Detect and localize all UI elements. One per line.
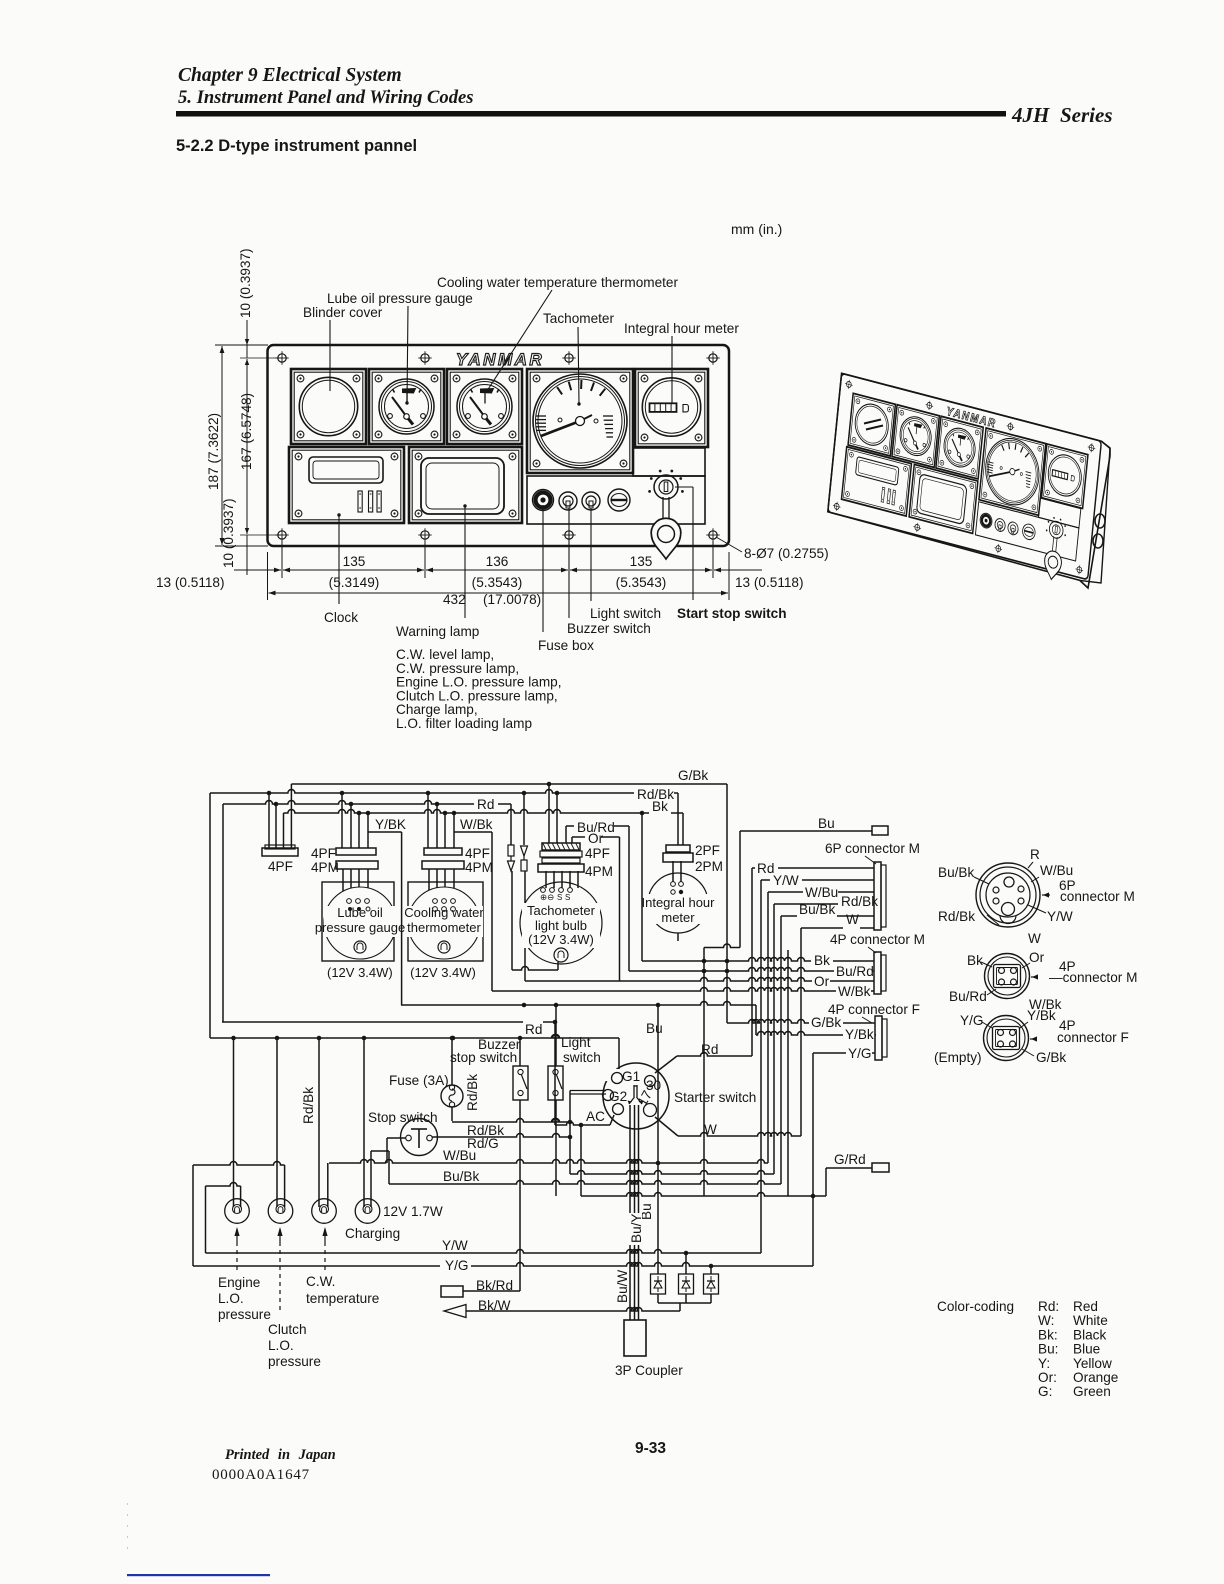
svg-text:Tachometer: Tachometer xyxy=(527,903,596,918)
svg-text:Lube oil: Lube oil xyxy=(337,905,383,920)
svg-text:Fuse (3A): Fuse (3A) xyxy=(389,1073,449,1088)
svg-text:Y:: Y: xyxy=(1038,1356,1050,1371)
svg-text:temperature: temperature xyxy=(306,1291,379,1306)
svg-text:G/Bk: G/Bk xyxy=(678,768,708,783)
svg-text:2PM: 2PM xyxy=(695,859,723,874)
svg-text:—connector M: —connector M xyxy=(1049,970,1137,985)
svg-text:Warning lamp: Warning lamp xyxy=(396,624,479,639)
svg-text:Y/G: Y/G xyxy=(445,1258,468,1273)
svg-text:Rd/Bk: Rd/Bk xyxy=(301,1087,316,1124)
svg-text:Bu/W: Bu/W xyxy=(615,1270,630,1303)
svg-text:G:: G: xyxy=(1038,1384,1052,1399)
svg-text:Orange: Orange xyxy=(1073,1370,1118,1385)
svg-text:R: R xyxy=(1030,847,1040,862)
svg-text:Rd: Rd xyxy=(525,1022,542,1037)
svg-text:(5.3543): (5.3543) xyxy=(616,575,667,590)
svg-text:Bu/Rd: Bu/Rd xyxy=(836,964,874,979)
svg-text:Charging: Charging xyxy=(345,1226,400,1241)
svg-text:Rd/Bk: Rd/Bk xyxy=(841,894,878,909)
svg-text:4PM: 4PM xyxy=(585,864,613,879)
svg-text:(12V 3.4W): (12V 3.4W) xyxy=(327,965,393,980)
svg-text:4P connector M: 4P connector M xyxy=(830,932,925,947)
svg-text:pressure: pressure xyxy=(218,1307,271,1322)
svg-text:Bk: Bk xyxy=(814,953,830,968)
svg-text:Or: Or xyxy=(1029,950,1045,965)
svg-text:W/Bu: W/Bu xyxy=(1040,863,1073,878)
svg-text:S: S xyxy=(565,893,570,902)
svg-text:(17.0078): (17.0078) xyxy=(483,592,541,607)
svg-text:Bu/Bk: Bu/Bk xyxy=(799,902,835,917)
svg-text:Rd: Rd xyxy=(701,1042,718,1057)
svg-text:Y/Bk: Y/Bk xyxy=(845,1027,874,1042)
svg-text:Y/W: Y/W xyxy=(773,873,799,888)
svg-text:G/Rd: G/Rd xyxy=(834,1152,866,1167)
svg-text:4PF: 4PF xyxy=(465,846,490,861)
svg-text:4PM: 4PM xyxy=(465,860,493,875)
svg-text:W/Bu: W/Bu xyxy=(805,885,838,900)
svg-text:(Empty): (Empty) xyxy=(934,1050,982,1065)
svg-text:Light switch: Light switch xyxy=(590,606,661,621)
svg-text:Clutch: Clutch xyxy=(268,1322,307,1337)
svg-text:Bk/W: Bk/W xyxy=(478,1298,511,1313)
svg-text:C.W.: C.W. xyxy=(306,1274,335,1289)
svg-text:13 (0.5118): 13 (0.5118) xyxy=(156,575,225,590)
svg-text:Bk: Bk xyxy=(967,953,983,968)
svg-text:C.W. pressure lamp,: C.W. pressure lamp, xyxy=(396,661,519,676)
svg-text:6P connector M: 6P connector M xyxy=(825,841,920,856)
svg-text:Yellow: Yellow xyxy=(1073,1356,1112,1371)
svg-text:mm (in.): mm (in.) xyxy=(731,221,782,237)
svg-text:(5.3149): (5.3149) xyxy=(329,575,380,590)
svg-text:(12V 3.4W): (12V 3.4W) xyxy=(528,932,594,947)
svg-text:L.O.: L.O. xyxy=(218,1291,244,1306)
svg-text:switch: switch xyxy=(563,1050,601,1065)
svg-text:5. Instrument Panel and Wiring: 5. Instrument Panel and Wiring Codes xyxy=(178,87,474,108)
svg-text:White: White xyxy=(1073,1313,1108,1328)
svg-text:136: 136 xyxy=(486,554,509,569)
svg-text:Y/W: Y/W xyxy=(442,1238,468,1253)
svg-text:G2: G2 xyxy=(609,1089,627,1104)
svg-text:Blue: Blue xyxy=(1073,1342,1100,1357)
svg-text:Starter switch: Starter switch xyxy=(674,1090,756,1105)
svg-text:Rd/Bk: Rd/Bk xyxy=(938,909,975,924)
svg-text:G/Bk: G/Bk xyxy=(811,1015,841,1030)
svg-text:Bu/Y: Bu/Y xyxy=(629,1214,644,1243)
svg-text:connector M: connector M xyxy=(1060,889,1135,904)
svg-text:4PF: 4PF xyxy=(311,846,336,861)
svg-text:Chapter 9 Electrical System: Chapter 9 Electrical System xyxy=(178,65,402,86)
svg-text:stop switch: stop switch xyxy=(450,1050,517,1065)
svg-text:4P connector F: 4P connector F xyxy=(828,1002,920,1017)
svg-text:Y/G: Y/G xyxy=(848,1046,871,1061)
svg-text:Lube oil pressure gauge: Lube oil pressure gauge xyxy=(327,291,473,306)
svg-text:8-Ø7 (0.2755): 8-Ø7 (0.2755) xyxy=(744,546,829,561)
svg-text:meter: meter xyxy=(661,910,695,925)
svg-text:W/Bk: W/Bk xyxy=(838,984,871,999)
svg-text:Cooling water: Cooling water xyxy=(404,905,484,920)
svg-text:Stop switch: Stop switch xyxy=(368,1110,438,1125)
svg-text:12V 1.7W: 12V 1.7W xyxy=(383,1204,443,1219)
svg-text:Or: Or xyxy=(588,831,604,846)
svg-text:Bu/Rd: Bu/Rd xyxy=(949,989,987,1004)
svg-text:pressure gauge: pressure gauge xyxy=(315,920,405,935)
svg-text:Red: Red xyxy=(1073,1299,1098,1314)
svg-text:Integral hour: Integral hour xyxy=(642,895,716,910)
svg-text:W:: W: xyxy=(1038,1313,1054,1328)
svg-text:135: 135 xyxy=(343,554,366,569)
svg-text:Y/W: Y/W xyxy=(1047,909,1073,924)
svg-text:Color-coding: Color-coding xyxy=(937,1299,1014,1314)
svg-text:Black: Black xyxy=(1073,1327,1106,1342)
svg-text:Engine L.O. pressure lamp,: Engine L.O. pressure lamp, xyxy=(396,675,561,690)
svg-text:2PF: 2PF xyxy=(695,843,720,858)
svg-text:3P Coupler: 3P Coupler xyxy=(615,1363,683,1378)
svg-text:432: 432 xyxy=(443,592,466,607)
svg-text:Bu/Bk: Bu/Bk xyxy=(443,1169,479,1184)
svg-text:Bu: Bu xyxy=(646,1021,663,1036)
svg-text:4JH: 4JH xyxy=(1011,103,1050,127)
svg-text:Clutch L.O. pressure lamp,: Clutch L.O. pressure lamp, xyxy=(396,688,558,703)
svg-text:G1: G1 xyxy=(622,1069,640,1084)
svg-text:Fuse box: Fuse box xyxy=(538,638,594,653)
svg-text:Printed in Japan: Printed in Japan xyxy=(225,1447,336,1463)
svg-text:10 (0.3937): 10 (0.3937) xyxy=(238,248,253,318)
svg-text:Or: Or xyxy=(814,974,830,989)
svg-text:167 (6.5748): 167 (6.5748) xyxy=(239,393,254,470)
svg-text:connector F: connector F xyxy=(1057,1030,1129,1045)
svg-text:9-33: 9-33 xyxy=(635,1440,666,1457)
svg-text:Bk: Bk xyxy=(652,799,668,814)
svg-text:(5.3543): (5.3543) xyxy=(472,575,523,590)
svg-text:Y/G: Y/G xyxy=(960,1013,983,1028)
svg-text:Green: Green xyxy=(1073,1384,1111,1399)
svg-text:Series: Series xyxy=(1060,103,1113,127)
svg-text:L.O.: L.O. xyxy=(268,1338,294,1353)
svg-text:AC: AC xyxy=(586,1109,605,1124)
svg-text:Rd: Rd xyxy=(477,797,494,812)
svg-text:Bk:: Bk: xyxy=(1038,1327,1058,1342)
svg-text:Integral hour meter: Integral hour meter xyxy=(624,321,739,336)
svg-text:10 (0.3937): 10 (0.3937) xyxy=(221,498,236,568)
svg-text:thermometer: thermometer xyxy=(407,920,481,935)
svg-text:4PM: 4PM xyxy=(311,860,339,875)
svg-text:W: W xyxy=(704,1122,717,1137)
svg-text:4PF: 4PF xyxy=(268,859,293,874)
svg-text:light bulb: light bulb xyxy=(535,918,587,933)
svg-text:Bu:: Bu: xyxy=(1038,1342,1058,1357)
svg-text:135: 135 xyxy=(630,554,653,569)
svg-text:W: W xyxy=(1028,931,1041,946)
svg-text:C.W. level lamp,: C.W. level lamp, xyxy=(396,647,494,662)
svg-text:Or:: Or: xyxy=(1038,1370,1057,1385)
svg-text:S: S xyxy=(557,893,562,902)
svg-text:4PF: 4PF xyxy=(585,846,610,861)
svg-text:(12V 3.4W): (12V 3.4W) xyxy=(410,965,476,980)
svg-text:Y/Bk: Y/Bk xyxy=(1027,1008,1056,1023)
svg-text:Charge lamp,: Charge lamp, xyxy=(396,702,478,717)
svg-text:Rd:: Rd: xyxy=(1038,1299,1059,1314)
svg-text:Rd: Rd xyxy=(757,861,774,876)
svg-text:L.O. filter loading lamp: L.O. filter loading lamp xyxy=(396,716,532,731)
svg-text:⊕⊖: ⊕⊖ xyxy=(540,892,554,902)
svg-text:YANMAR: YANMAR xyxy=(456,350,544,369)
svg-text:Y/BK: Y/BK xyxy=(375,817,406,832)
svg-text:13 (0.5118): 13 (0.5118) xyxy=(735,575,804,590)
svg-text:G/Bk: G/Bk xyxy=(1036,1050,1066,1065)
svg-text:W: W xyxy=(846,912,859,927)
svg-text:Bu: Bu xyxy=(818,816,835,831)
svg-text:187 (7.3622): 187 (7.3622) xyxy=(206,413,221,490)
svg-text:Tachometer: Tachometer xyxy=(543,311,614,326)
svg-text:5-2.2 D-type instrument pannel: 5-2.2 D-type instrument pannel xyxy=(176,137,417,155)
svg-text:W/Bk: W/Bk xyxy=(460,817,493,832)
svg-text:Blinder cover: Blinder cover xyxy=(303,305,383,320)
svg-text:Rd/Bk: Rd/Bk xyxy=(465,1074,480,1111)
svg-text:Clock: Clock xyxy=(324,610,358,625)
svg-text:Start stop switch: Start stop switch xyxy=(677,606,787,621)
svg-text:Bk/Rd: Bk/Rd xyxy=(476,1278,513,1293)
svg-text:Buzzer switch: Buzzer switch xyxy=(567,621,651,636)
svg-text:pressure: pressure xyxy=(268,1354,321,1369)
svg-text:Engine: Engine xyxy=(218,1275,260,1290)
svg-text:W/Bu: W/Bu xyxy=(443,1148,476,1163)
svg-text:Cooling water temperature ther: Cooling water temperature thermometer xyxy=(437,275,678,290)
svg-text:Bu/Bk: Bu/Bk xyxy=(938,865,974,880)
svg-text:30: 30 xyxy=(646,1078,662,1093)
svg-text:0000A0A1647: 0000A0A1647 xyxy=(212,1467,310,1483)
